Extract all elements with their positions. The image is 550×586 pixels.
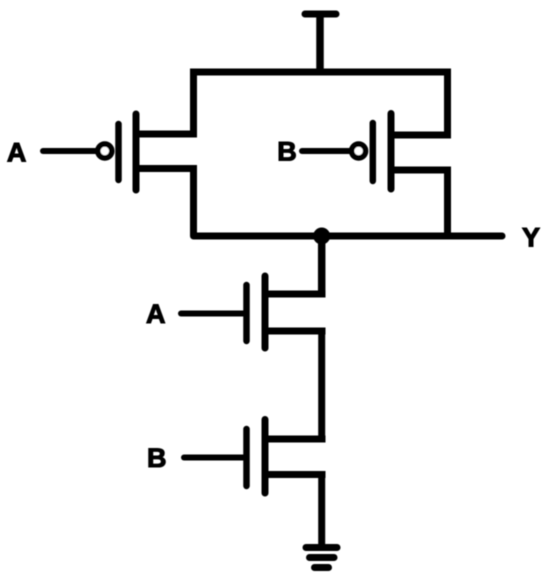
wire: Q4 source down to ground [318,475,325,548]
svg-text:B: B [147,443,167,473]
wire: B input lead to Q4 gate [184,455,247,461]
wire: A input lead to Q3 gate [181,311,247,317]
wire: A input lead to Q1 gate [43,148,96,154]
wire: Q2 drain down to output rail [444,170,451,236]
node: output junction [315,230,328,243]
transistor Q4 NMOS (input B) [247,420,326,494]
wire: Q3 source down to Q4 drain [318,331,325,439]
wire: junction down to Q3 drain [318,236,326,294]
ground [306,548,337,568]
power VDD symbol [305,14,336,72]
svg-text:A: A [7,138,27,168]
wire: Q1 drain down to output rail [190,169,197,237]
svg-text:Y: Y [522,222,540,252]
svg-text:B: B [277,137,297,167]
wire: VDD top rail with drops to PMOS sources [194,72,448,135]
transistor Q1 PMOS (input A) [98,114,197,190]
wire: output rail Y [194,233,503,240]
svg-text:A: A [146,299,166,329]
wire: B input lead to Q2 gate [302,148,350,154]
transistor Q3 NMOS (input A) [247,276,326,348]
transistor Q2 PMOS (input B) [352,114,451,190]
